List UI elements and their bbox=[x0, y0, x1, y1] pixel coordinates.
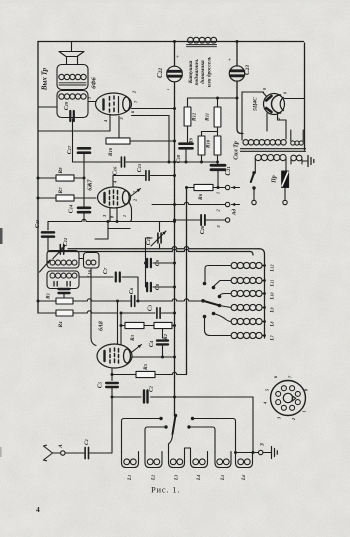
switch2 contacts bbox=[159, 417, 162, 420]
capacitor C19 bbox=[70, 111, 74, 121]
wire box to tube pin5 bbox=[88, 101, 96, 103]
tube V1 6Ф6 bbox=[96, 93, 132, 115]
svg-text:6Ж7: 6Ж7 bbox=[88, 178, 94, 190]
capacitor C22 electrolytic bbox=[174, 42, 176, 67]
C7 row bbox=[79, 276, 113, 278]
svg-text:2: 2 bbox=[276, 118, 281, 121]
resistor R12 bbox=[187, 98, 189, 107]
svg-text:1: 1 bbox=[122, 215, 127, 217]
vertical bus B bbox=[186, 188, 188, 375]
R1 row / detector bus bbox=[37, 300, 40, 303]
capacitor C3 bbox=[157, 308, 160, 318]
svg-text:С21: С21 bbox=[224, 166, 232, 175]
svg-text:С23: С23 bbox=[243, 65, 251, 75]
svg-text:подмагнич.: подмагнич. bbox=[193, 59, 200, 86]
wave band coil bank L7-L12 bbox=[231, 262, 237, 268]
terminal 1 row / R6 bbox=[187, 187, 195, 189]
switch2 wires to coils bbox=[122, 419, 162, 454]
wire speaker to top bus bbox=[71, 42, 73, 52]
grid cap C5 on x112 bbox=[111, 369, 113, 381]
svg-text:6А8: 6А8 bbox=[99, 321, 105, 331]
capacitor C4 bbox=[162, 329, 164, 338]
svg-text:1: 1 bbox=[216, 192, 221, 194]
choke coil on top bus bbox=[188, 37, 194, 43]
variable cap C13 with arrow bbox=[159, 222, 161, 232]
wire R10 right to bus bbox=[130, 140, 175, 142]
secondary windings bbox=[255, 155, 261, 161]
mains switch bbox=[252, 171, 255, 174]
output transformer box lower with C19 bbox=[57, 91, 88, 118]
trimmer C12 with arrow bbox=[60, 245, 63, 255]
small box T3 bbox=[84, 253, 100, 269]
R4 row bbox=[38, 312, 56, 314]
ground bus З bbox=[236, 452, 259, 454]
resistor R7 row bbox=[38, 197, 56, 199]
fuse Пр bbox=[282, 171, 289, 188]
svg-text:4: 4 bbox=[36, 505, 40, 514]
C9 row bbox=[145, 238, 147, 287]
wire pin7 to main vertical bbox=[132, 108, 175, 110]
frame right border bbox=[304, 43, 306, 150]
IF transformer box T2 bbox=[47, 271, 79, 289]
oscillator bus y397 with C2 bbox=[112, 396, 141, 398]
capacitor C1 bbox=[65, 452, 84, 454]
svg-text:8: 8 bbox=[262, 88, 267, 90]
L4 link stubs bbox=[185, 448, 191, 452]
svg-text:Вых Тр: Вых Тр bbox=[41, 67, 49, 91]
C15 row bbox=[113, 176, 145, 188]
C14 on x84 column bbox=[78, 208, 90, 212]
AVC arrow 6А8 bbox=[132, 345, 142, 353]
AVC arrow 6Ж7 bbox=[131, 189, 141, 197]
left verticals to 6A8 bbox=[91, 268, 96, 346]
frame top bus bbox=[38, 41, 304, 43]
C8 row bbox=[147, 283, 151, 291]
band switch 1 wiper bbox=[203, 301, 220, 306]
wire tube pin3 to R10 bbox=[118, 116, 120, 138]
IF transformer box T1 bbox=[47, 251, 79, 269]
svg-text:Ад: Ад bbox=[231, 209, 238, 217]
capacitor C23 electrolytic bbox=[236, 42, 238, 67]
bus pair upper bbox=[68, 247, 259, 249]
ground bus y162 with C16 bbox=[72, 119, 74, 162]
rectifier tube 5Ц4С bbox=[264, 94, 285, 115]
capacitor C16 bbox=[121, 157, 124, 167]
svg-text:А: А bbox=[58, 444, 64, 449]
output transformer Вых Тр box upper bbox=[57, 65, 88, 90]
svg-text:6Ф6: 6Ф6 bbox=[91, 76, 98, 88]
tube V2 6Ж7 bbox=[98, 187, 131, 208]
coils L1-L6 bbox=[122, 452, 139, 468]
svg-text:Пр: Пр bbox=[272, 175, 278, 184]
tube V3 6А8 bbox=[97, 344, 132, 368]
capacitor C11 bbox=[47, 222, 49, 231]
wire R12 R11 top bus bbox=[188, 97, 238, 99]
svg-text:З: З bbox=[260, 443, 266, 447]
svg-text:Рис. 1.: Рис. 1. bbox=[151, 485, 180, 495]
capacitor C17 bbox=[78, 148, 90, 152]
wire pin4 down and left to border bbox=[38, 115, 110, 132]
svg-text:1: 1 bbox=[302, 410, 307, 412]
svg-text:или дроссель: или дроссель bbox=[206, 56, 213, 87]
antenna bbox=[44, 445, 53, 461]
speaker bbox=[59, 52, 84, 65]
R5 row bbox=[136, 371, 155, 377]
band switch 2 wiper bbox=[173, 416, 176, 435]
svg-text:С22: С22 bbox=[156, 68, 164, 78]
svg-text:8: 8 bbox=[283, 92, 288, 94]
wire pin6 down to ground bus bbox=[132, 116, 170, 163]
6Ж7 cathode wires bbox=[110, 208, 117, 222]
frame left border bbox=[37, 42, 39, 314]
main vertical bus A bbox=[174, 82, 176, 253]
C20 row and terminals bbox=[175, 219, 201, 221]
terminal 3 bbox=[225, 218, 229, 222]
resistor R10 vertical bbox=[214, 136, 221, 155]
svg-text:Сил Тр: Сил Тр bbox=[234, 141, 240, 159]
resistor R9 bbox=[201, 132, 203, 137]
C21 electrolytic bbox=[211, 165, 225, 169]
svg-text:динамика: динамика bbox=[199, 60, 206, 84]
resistor R8 row bbox=[38, 177, 56, 179]
capacitor C18 electrolytic bbox=[187, 126, 189, 142]
vertical bus A lower bbox=[174, 253, 176, 416]
R3 R2 row bbox=[121, 325, 125, 327]
capacitor C6 bbox=[131, 296, 134, 307]
ground symbol antenna side bbox=[272, 447, 278, 459]
wire left border to box bbox=[38, 106, 57, 108]
svg-text:5Ц4С: 5Ц4С bbox=[253, 97, 259, 111]
wire C23 down and bend right bbox=[236, 81, 238, 98]
cap below T2 bbox=[59, 289, 70, 293]
tuning arrow T1 bbox=[40, 260, 51, 272]
5Ц4С pin wires bbox=[285, 98, 305, 100]
ground symbol mains bbox=[308, 156, 314, 167]
plate row y357 bbox=[133, 356, 175, 358]
wire jog below 6Ж7 bbox=[95, 222, 130, 240]
terminal 2 row bbox=[152, 202, 225, 204]
transformer core bbox=[241, 149, 306, 152]
ground bus y221 with hop bbox=[48, 219, 175, 221]
coil bank left wires bbox=[205, 266, 231, 282]
resistor R10 plate of 6F6 bbox=[106, 138, 130, 144]
octal socket bbox=[271, 381, 306, 416]
resistor R11 bbox=[217, 98, 219, 107]
